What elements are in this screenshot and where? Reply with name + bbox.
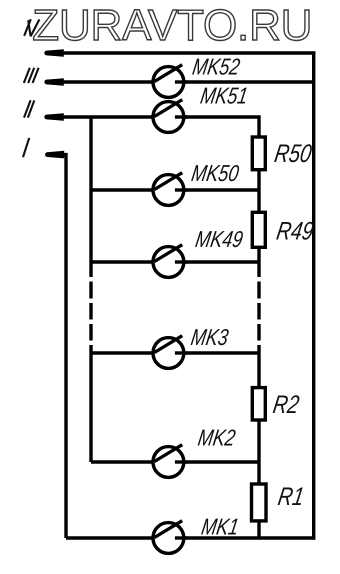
svg-text:R49: R49 [275, 216, 316, 245]
label MK2 [196, 426, 237, 451]
label MK52 [191, 55, 242, 80]
wire: left bus lower solid segment [89, 345, 92, 462]
label MK1 [200, 515, 241, 540]
resistor R2 [252, 388, 265, 420]
label R2 [271, 390, 301, 419]
contact MK1 [153, 521, 187, 554]
label MK50 [190, 161, 241, 186]
node label I [23, 138, 29, 157]
svg-text:MK2: MK2 [196, 426, 237, 451]
wire: resistor chain below R49 solid stub [257, 246, 260, 277]
svg-text:R1: R1 [276, 482, 306, 511]
wire: resistor chain dashed section [257, 282, 260, 341]
wire: MK1 bottom row (net I) [66, 536, 315, 539]
svg-text:MK3: MK3 [189, 325, 230, 350]
contact MK50 [153, 173, 187, 206]
wire: MK2 row [91, 460, 259, 463]
wire: arrow I elbow down outer-left line [61, 155, 66, 538]
svg-text:MK52: MK52 [191, 55, 242, 80]
resistor R1 [252, 484, 267, 521]
label MK49 [194, 227, 245, 252]
wire: resistor chain MK3 to R2 segment [257, 345, 260, 389]
label MK51 [199, 84, 250, 109]
wire: MK52 row (net III) [45, 80, 314, 83]
wire: resistor chain R2 to MK2 row segment [257, 419, 260, 486]
svg-text:MK51: MK51 [199, 84, 250, 109]
label R50 [273, 139, 314, 168]
arrowhead net IV [47, 49, 64, 57]
resistor R49 [252, 212, 265, 247]
wire: top feeder line (net IV) [45, 51, 315, 54]
svg-text:R2: R2 [271, 390, 301, 419]
node label IV [24, 19, 39, 36]
arrowhead net II [47, 113, 64, 121]
wire: resistor chain R50-R49 segment [257, 169, 260, 214]
label R49 [275, 216, 316, 245]
svg-text:MK1: MK1 [200, 515, 241, 540]
svg-text:MK49: MK49 [194, 227, 245, 252]
wire: MK50 row [91, 188, 259, 191]
label R1 [276, 482, 306, 511]
arrowhead net III [47, 78, 64, 86]
contact MK49 [153, 245, 187, 278]
wire: MK51 row (net II) with corner down to R50 [45, 117, 259, 139]
wire: left bus upper solid segment [89, 117, 92, 277]
svg-text:ZURAVTO.RU: ZURAVTO.RU [32, 1, 312, 50]
contact MK3 [153, 336, 187, 369]
right bus wire [312, 51, 315, 539]
wire: MK49 row [91, 260, 259, 263]
wire: resistor chain R1 to bottom row stub [257, 519, 260, 538]
arrowhead net I [47, 151, 64, 159]
wire: MK3 row [91, 351, 259, 354]
contact MK51 [153, 100, 187, 133]
svg-text:MK50: MK50 [190, 161, 241, 186]
node label II [24, 100, 34, 117]
wire: left bus dashed section [89, 282, 92, 341]
resistor R50 [252, 137, 265, 170]
svg-text:R50: R50 [273, 139, 314, 168]
contact MK52 [153, 65, 187, 98]
label MK3 [189, 325, 230, 350]
node label III [24, 68, 39, 83]
contact MK2 [153, 445, 187, 478]
